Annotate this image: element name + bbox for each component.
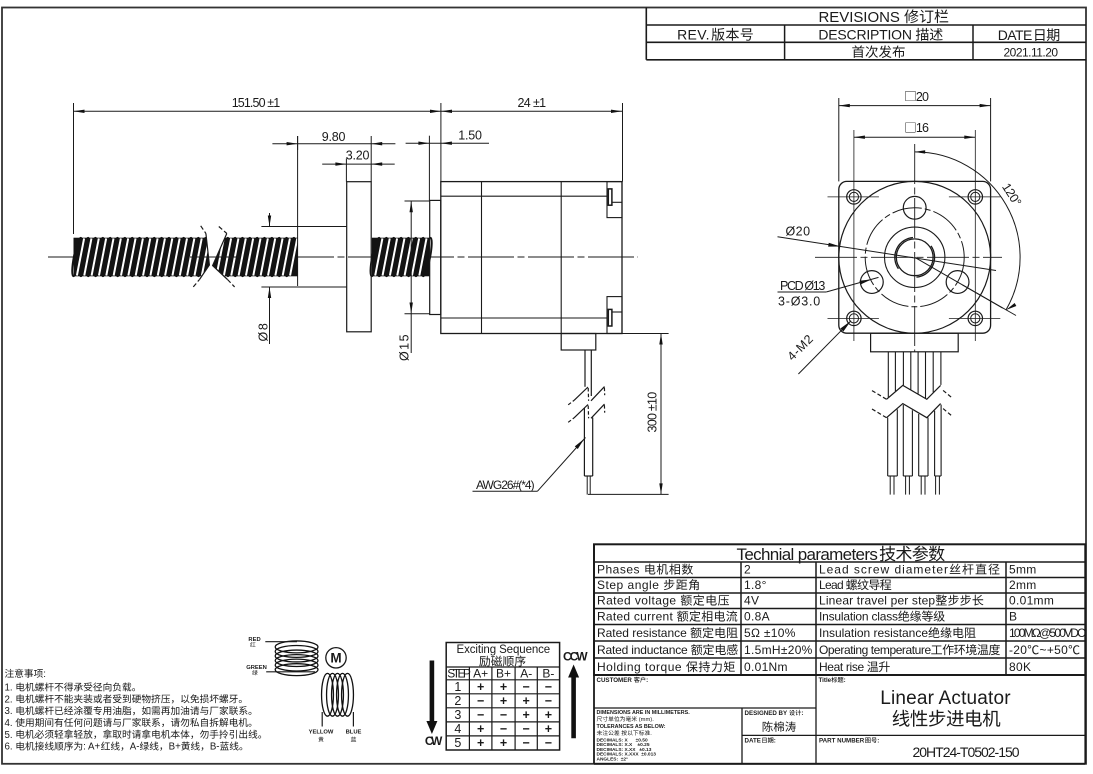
label PCD Ø13 / 3-Ø3.0 bbox=[780, 279, 825, 293]
svg-text:1.50: 1.50 bbox=[458, 128, 482, 142]
dimension 300 bbox=[622, 333, 669, 335]
svg-text:0.8A: 0.8A bbox=[744, 610, 770, 624]
svg-text:+: + bbox=[477, 722, 484, 736]
svg-text:PCD Ø13: PCD Ø13 bbox=[780, 279, 825, 293]
dimension Ø8 bbox=[269, 213, 271, 227]
wire thin tail side view bbox=[586, 476, 588, 495]
svg-text:Lead: Lead bbox=[819, 578, 846, 592]
tolerance decimals block bbox=[597, 737, 648, 743]
svg-text:Ø20: Ø20 bbox=[786, 225, 811, 239]
svg-text:5.: 5. bbox=[5, 730, 16, 741]
wire break symbol front view bbox=[887, 385, 941, 399]
CW text bbox=[425, 734, 443, 748]
svg-text:−: − bbox=[477, 694, 484, 708]
svg-text:2021.11.20: 2021.11.20 bbox=[1004, 45, 1059, 59]
svg-text:0.01Nm: 0.01Nm bbox=[744, 660, 788, 674]
dimension 24 bbox=[441, 110, 622, 112]
svg-text:151.50 ±1: 151.50 ±1 bbox=[232, 96, 280, 110]
phase B leads bbox=[321, 712, 323, 727]
dimension Ø15 bbox=[410, 201, 412, 353]
svg-text:+: + bbox=[500, 680, 507, 694]
motor body side view bbox=[441, 182, 622, 334]
svg-text:Rated current: Rated current bbox=[597, 610, 677, 624]
svg-text:+: + bbox=[500, 736, 507, 750]
svg-text:Linear travel per step: Linear travel per step bbox=[819, 594, 935, 608]
front view square body bbox=[839, 181, 991, 333]
svg-text:1: 1 bbox=[454, 680, 461, 694]
title label bbox=[819, 677, 846, 684]
exciting sequence table bbox=[446, 643, 559, 751]
svg-text:Ø8: Ø8 bbox=[257, 322, 271, 342]
svg-text:24 ±1: 24 ±1 bbox=[518, 96, 547, 110]
phase A leads bbox=[265, 641, 297, 643]
svg-text:1.5mH±20%: 1.5mH±20% bbox=[744, 643, 813, 657]
svg-text:−: − bbox=[545, 736, 552, 750]
svg-text:B-: B- bbox=[542, 666, 554, 680]
svg-text::: : bbox=[844, 677, 846, 684]
description column header bbox=[818, 27, 942, 43]
sequence row 4 bbox=[454, 722, 461, 736]
svg-text:+: + bbox=[523, 694, 530, 708]
svg-text:Rated resistance: Rated resistance bbox=[597, 626, 690, 640]
phase A coil (horizontal) bbox=[275, 641, 318, 676]
leader Ø20 bbox=[786, 225, 811, 239]
svg-text:BLUE: BLUE bbox=[346, 730, 362, 736]
svg-text:A+: A+ bbox=[473, 666, 488, 680]
svg-text:Ø15: Ø15 bbox=[398, 333, 412, 361]
dimension square 16 bbox=[854, 136, 975, 138]
wire break symbol side view bbox=[568, 400, 574, 404]
svg-text:ANGLES: ±2°: ANGLES: ±2° bbox=[597, 757, 629, 763]
svg-text:16: 16 bbox=[916, 121, 929, 135]
revisions table grid bbox=[646, 24, 1086, 26]
svg-text:Phases: Phases bbox=[597, 563, 644, 577]
svg-text:Title: Title bbox=[819, 677, 832, 684]
svg-text:B-: B- bbox=[210, 742, 220, 753]
svg-text:9.80: 9.80 bbox=[322, 130, 346, 144]
svg-text:REVISIONS: REVISIONS bbox=[818, 9, 904, 26]
svg-text:DESCRIPTION: DESCRIPTION bbox=[818, 27, 915, 43]
svg-text:−: − bbox=[523, 680, 530, 694]
svg-text:+: + bbox=[477, 680, 484, 694]
svg-text:: A+: : A+ bbox=[83, 742, 100, 753]
svg-text:20: 20 bbox=[916, 90, 929, 104]
svg-text:−: − bbox=[500, 708, 507, 722]
lead screw thread section 1 bbox=[74, 238, 299, 277]
svg-text:Heat rise: Heat rise bbox=[819, 660, 867, 674]
GREEN label bbox=[246, 665, 267, 671]
sequence row 1 bbox=[454, 680, 461, 694]
svg-text:−: − bbox=[477, 708, 484, 722]
lead screw thread section 2 bbox=[372, 238, 430, 277]
svg-text:6.: 6. bbox=[5, 742, 16, 753]
part number value bbox=[913, 744, 1020, 760]
svg-text:20HT24-T0502-150: 20HT24-T0502-150 bbox=[913, 744, 1020, 760]
svg-text:PART NUMBER: PART NUMBER bbox=[819, 738, 865, 745]
param row 1 bbox=[597, 563, 693, 577]
screw break symbol bbox=[200, 233, 228, 280]
svg-text::: : bbox=[774, 738, 776, 745]
motor lead wires side view bbox=[584, 350, 586, 387]
svg-text:Holding torque: Holding torque bbox=[597, 660, 686, 674]
svg-text:RED: RED bbox=[248, 637, 260, 643]
note line 6 bbox=[5, 742, 243, 753]
notes title bbox=[5, 669, 46, 680]
date label bbox=[745, 737, 776, 744]
sequence row 2 bbox=[454, 694, 461, 708]
svg-text:DATE: DATE bbox=[998, 27, 1032, 43]
svg-text:3.20: 3.20 bbox=[346, 148, 370, 162]
svg-text:A-: A- bbox=[130, 742, 140, 753]
title chinese bbox=[893, 710, 1001, 727]
svg-text:100MΩ@500VDC: 100MΩ@500VDC bbox=[1009, 626, 1086, 640]
terminal tab upper bbox=[607, 182, 622, 218]
sequence header row bbox=[447, 666, 471, 680]
exciting sequence title en bbox=[457, 644, 551, 656]
param row 6 bbox=[597, 643, 738, 657]
dimension 9.80 bbox=[272, 143, 395, 145]
svg-text:+: + bbox=[477, 736, 484, 750]
title block grid bbox=[594, 707, 816, 709]
shaft Ø8 outline lines bbox=[261, 226, 346, 228]
motor symbol M bbox=[326, 648, 346, 668]
param row 2 bbox=[597, 578, 699, 592]
svg-text:Operating temperature: Operating temperature bbox=[819, 643, 931, 657]
dimension square 20 bbox=[838, 98, 840, 181]
svg-text:Insulation resistance: Insulation resistance bbox=[819, 626, 928, 640]
svg-text:+: + bbox=[545, 722, 552, 736]
sequence row 5 bbox=[454, 736, 461, 750]
svg-text:−: − bbox=[523, 722, 530, 736]
svg-text:5Ω ±10%: 5Ω ±10% bbox=[744, 626, 796, 640]
svg-text:−: − bbox=[500, 722, 507, 736]
note line 1 bbox=[5, 682, 136, 693]
svg-text:+: + bbox=[523, 708, 530, 722]
customer label bbox=[597, 677, 649, 684]
rev column header bbox=[677, 27, 753, 43]
svg-text:2: 2 bbox=[454, 694, 461, 708]
dimension 120 degree arc bbox=[915, 152, 1020, 310]
CCW text bbox=[563, 649, 588, 663]
param row 4 bbox=[597, 610, 737, 624]
svg-text:4: 4 bbox=[454, 722, 461, 736]
param row 5 bbox=[597, 626, 738, 640]
svg-text::: : bbox=[801, 710, 803, 717]
phase B coil (vertical) bbox=[322, 673, 354, 716]
svg-text:STEP: STEP bbox=[447, 666, 471, 680]
PCD Ø13 bolt circle bbox=[865, 208, 964, 307]
svg-text:B+: B+ bbox=[169, 742, 181, 753]
svg-text:3.: 3. bbox=[5, 706, 16, 717]
svg-text:4.: 4. bbox=[5, 718, 16, 729]
svg-text:Rated voltage: Rated voltage bbox=[597, 594, 680, 608]
technical parameters table grid bbox=[594, 544, 1085, 675]
AWG26 wire label bbox=[476, 478, 535, 492]
svg-text:2.: 2. bbox=[5, 694, 16, 705]
CCW arrow bbox=[571, 676, 576, 738]
svg-text:−: − bbox=[545, 680, 552, 694]
svg-text:Technial parameters: Technial parameters bbox=[737, 545, 878, 564]
param row 7 bbox=[597, 660, 735, 674]
svg-text::: : bbox=[877, 738, 879, 745]
120 degree extension ray bbox=[915, 257, 1003, 308]
front view centerlines bbox=[815, 256, 1002, 258]
svg-text:B: B bbox=[1009, 610, 1017, 624]
wire exit box front view bbox=[871, 333, 959, 352]
sequence row 3 bbox=[454, 708, 461, 722]
part number label bbox=[819, 738, 879, 745]
svg-text:2mm: 2mm bbox=[1009, 578, 1037, 592]
svg-text:4V: 4V bbox=[744, 594, 759, 608]
front view motor circle Ø20 bbox=[839, 181, 991, 333]
svg-text:300 ±10: 300 ±10 bbox=[646, 392, 660, 433]
param row 3 bbox=[597, 594, 729, 608]
svg-text:+: + bbox=[545, 708, 552, 722]
dimensions note block bbox=[597, 710, 691, 716]
svg-text:M: M bbox=[330, 651, 341, 666]
designed by label bbox=[745, 710, 804, 717]
svg-text:Exciting Sequence: Exciting Sequence bbox=[457, 644, 551, 656]
note line 4 bbox=[5, 718, 252, 729]
YELLOW label bbox=[309, 730, 334, 736]
svg-text:DESIGNED BY: DESIGNED BY bbox=[745, 710, 789, 717]
svg-text:+: + bbox=[500, 694, 507, 708]
svg-text:~+50: ~+50 bbox=[1040, 643, 1069, 657]
svg-text:−: − bbox=[545, 694, 552, 708]
corner hole vertical centerlines bbox=[853, 130, 855, 341]
params table title bbox=[737, 545, 945, 564]
svg-text:TOLERANCES AS BELOW:: TOLERANCES AS BELOW: bbox=[597, 724, 666, 730]
svg-text:0.01mm: 0.01mm bbox=[1009, 594, 1054, 608]
date value bbox=[1004, 45, 1059, 59]
svg-text:B+: B+ bbox=[496, 666, 511, 680]
svg-text:DIMENSIONS ARE IN MILLIMETERS.: DIMENSIONS ARE IN MILLIMETERS. bbox=[597, 710, 691, 716]
svg-text:AWG26#(*4): AWG26#(*4) bbox=[476, 478, 535, 492]
svg-text:(mm).: (mm). bbox=[637, 717, 654, 723]
mounting boss Ø15 bbox=[430, 200, 441, 314]
svg-text:GREEN: GREEN bbox=[246, 665, 267, 671]
lead wires front view upper bundle bbox=[887, 352, 889, 397]
svg-text:Rated inductance: Rated inductance bbox=[597, 643, 691, 657]
svg-text:YELLOW: YELLOW bbox=[309, 730, 334, 736]
svg-text::: : bbox=[43, 669, 46, 680]
svg-text:1.: 1. bbox=[5, 683, 16, 694]
svg-text:Linear Actuator: Linear Actuator bbox=[880, 688, 1011, 709]
dimension 151.50 bbox=[73, 103, 75, 234]
BLUE label bbox=[346, 730, 362, 736]
center bore circles bbox=[885, 227, 945, 287]
4x M2 corner holes bbox=[847, 190, 861, 204]
svg-text:Insulation class: Insulation class bbox=[819, 610, 898, 624]
svg-text::: : bbox=[646, 677, 648, 684]
svg-text:CUSTOMER: CUSTOMER bbox=[597, 677, 634, 684]
RED label bbox=[248, 637, 260, 643]
terminal tab lower bbox=[607, 297, 622, 334]
note line 5 bbox=[5, 730, 262, 741]
note line 3 bbox=[5, 706, 252, 717]
date column header bbox=[998, 27, 1060, 43]
flange bbox=[347, 182, 372, 332]
designer name bbox=[763, 721, 796, 732]
side view centerline bbox=[48, 256, 638, 258]
title english bbox=[880, 688, 1011, 709]
3x Ø3.0 holes bbox=[903, 196, 926, 219]
dimension 3.20 bbox=[322, 163, 395, 165]
note line 2 bbox=[5, 694, 242, 705]
svg-text:5: 5 bbox=[454, 736, 461, 750]
revisions header text bbox=[818, 9, 948, 26]
svg-text:Lead screw diameter: Lead screw diameter bbox=[819, 563, 949, 577]
wire exit box side view bbox=[561, 334, 596, 351]
svg-text:3-Ø3.0: 3-Ø3.0 bbox=[778, 294, 821, 308]
svg-text:Step angle: Step angle bbox=[597, 578, 663, 592]
svg-text:2: 2 bbox=[744, 563, 751, 577]
svg-text:1.8°: 1.8° bbox=[744, 578, 767, 592]
svg-text:A-: A- bbox=[520, 666, 532, 680]
svg-text:DATE: DATE bbox=[745, 738, 761, 745]
dimension 1.50 bbox=[406, 142, 489, 144]
svg-text:−: − bbox=[523, 736, 530, 750]
svg-text:3: 3 bbox=[454, 708, 461, 722]
CW arrow bbox=[430, 661, 435, 724]
label 4-M2 bbox=[798, 321, 851, 374]
svg-text:REV.: REV. bbox=[677, 27, 710, 43]
svg-text:CCW: CCW bbox=[563, 649, 588, 663]
first release row bbox=[852, 45, 904, 58]
svg-text:-20: -20 bbox=[1009, 643, 1027, 657]
svg-text:5mm: 5mm bbox=[1009, 563, 1037, 577]
lead wires front view lower bundle bbox=[887, 418, 889, 476]
svg-text:80K: 80K bbox=[1009, 660, 1031, 674]
exciting sequence title cn bbox=[479, 656, 525, 667]
